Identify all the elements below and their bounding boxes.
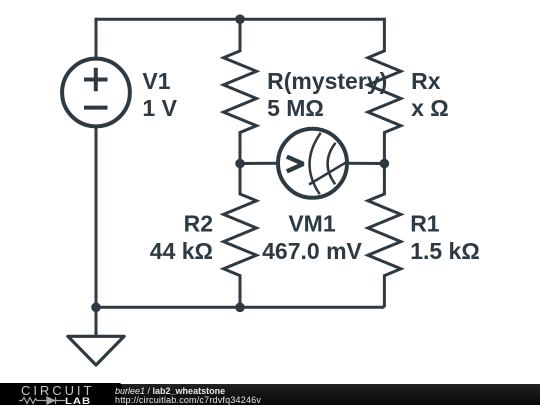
wire V1 top lead <box>95 18 98 58</box>
CircuitLab logo <box>0 383 122 405</box>
svg-text:V1: V1 <box>142 68 170 94</box>
footer title text <box>115 387 225 396</box>
wire bottom rail <box>96 306 384 309</box>
resistor R(mystery) <box>224 18 257 164</box>
svg-text:1.5 kΩ: 1.5 kΩ <box>410 238 480 264</box>
svg-text:Rx: Rx <box>411 68 441 94</box>
ground <box>68 307 124 365</box>
node: top junction <box>235 14 245 24</box>
footer bar <box>0 384 540 405</box>
resistor Rx <box>368 18 401 164</box>
footer url text <box>115 396 261 405</box>
node: left bridge midpoint <box>235 159 245 169</box>
svg-text:R1: R1 <box>410 211 440 237</box>
resistor R1 <box>368 164 401 308</box>
voltage source V1 <box>62 59 130 127</box>
wire top rail <box>96 18 384 21</box>
svg-text:44 kΩ: 44 kΩ <box>150 238 213 264</box>
svg-text:x Ω: x Ω <box>411 95 449 121</box>
voltmeter VM1 <box>240 129 384 198</box>
node: right bridge midpoint <box>380 159 390 169</box>
node: bottom junction <box>235 303 245 313</box>
svg-text:5 MΩ: 5 MΩ <box>267 95 324 121</box>
resistor R2 <box>224 164 257 308</box>
svg-text:1 V: 1 V <box>142 95 177 121</box>
wire V1 bottom to ground rail <box>95 128 98 308</box>
svg-text:VM1: VM1 <box>288 211 336 237</box>
svg-text:R2: R2 <box>184 211 213 237</box>
svg-text:467.0 mV: 467.0 mV <box>262 238 362 264</box>
node: ground junction <box>91 303 101 313</box>
svg-text:R(mystery): R(mystery) <box>267 68 387 94</box>
